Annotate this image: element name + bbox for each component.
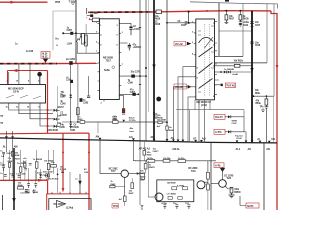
node circled mark in U3 xyxy=(112,66,115,69)
tube U4 internal lever 2 xyxy=(199,79,213,89)
node junction y96 xyxy=(266,95,268,97)
wire vertical x219 xyxy=(218,3,220,57)
resistor R243 xyxy=(20,167,22,172)
node connector AS xyxy=(166,139,169,141)
svg-text:BA157: BA157 xyxy=(57,106,64,109)
node junction on rail xyxy=(188,11,190,13)
wire red vertical x48 xyxy=(47,71,49,134)
node junction x154 xyxy=(153,112,155,114)
wire x148.5 to Q2 base xyxy=(148,161,150,197)
svg-text:1: 1 xyxy=(122,32,124,34)
wire to N-070 xyxy=(240,196,246,206)
svg-text:V2 1.32: V2 1.32 xyxy=(175,43,183,46)
wire U1 pin8 up xyxy=(29,64,31,83)
svg-text:1u: 1u xyxy=(75,178,78,180)
resistor R0636 tall xyxy=(35,162,38,168)
node arrow left on red branch xyxy=(12,69,18,72)
svg-text:9: 9 xyxy=(117,35,119,37)
diode D2 xyxy=(19,105,53,114)
svg-text:R0500: R0500 xyxy=(234,192,241,194)
wire vertical x36.7 xyxy=(36,150,38,180)
svg-text:+C261: +C261 xyxy=(133,47,140,49)
resistor R645m on x167 xyxy=(166,126,168,130)
svg-text:C2u: C2u xyxy=(57,123,62,125)
svg-text:L294: L294 xyxy=(67,42,73,45)
node arrow red x63 xyxy=(62,188,65,193)
svg-text:AP: AP xyxy=(150,135,154,139)
wire rail mid-left dashed xyxy=(0,63,57,65)
resistor R482 below xyxy=(207,182,209,184)
ground below R617 xyxy=(224,20,228,24)
svg-text:R0478: R0478 xyxy=(149,166,156,169)
pin stubs U3 left xyxy=(98,23,100,90)
svg-text:C0477: C0477 xyxy=(153,150,160,153)
box input section top-left xyxy=(53,11,76,50)
node junction tube pin1 xyxy=(188,22,190,24)
resistor R295 vertical tall xyxy=(85,35,88,46)
svg-text:AI: AI xyxy=(257,137,260,141)
svg-text:7: 7 xyxy=(122,64,124,66)
collector Q3 wire xyxy=(204,179,208,182)
resistor thermistor red below U3 xyxy=(123,96,125,109)
capacitor C041 under AL xyxy=(2,152,5,157)
node junction R295 xyxy=(84,42,86,44)
svg-text:R62s: R62s xyxy=(238,60,244,62)
capacitor C245 xyxy=(24,168,27,170)
svg-text:16: 16 xyxy=(213,23,216,25)
label red box Cha TV xyxy=(214,114,225,119)
wire horizontal y122 extension xyxy=(81,121,167,123)
tube U4 box MC1310 xyxy=(196,19,215,100)
node junction diodes xyxy=(220,71,222,73)
diode D4 xyxy=(40,105,53,126)
wire vertical x274 xyxy=(273,4,275,96)
svg-text:4: 4 xyxy=(100,34,102,37)
cap PC038 xyxy=(44,173,46,175)
resistor R649 xyxy=(123,196,126,201)
svg-text:8: 8 xyxy=(117,44,119,46)
svg-text:ITM: ITM xyxy=(55,0,60,4)
resistor R047m series on y122 xyxy=(158,121,162,124)
resistor R632 xyxy=(265,96,267,99)
svg-text:SvBu: SvBu xyxy=(104,69,110,72)
tube U4 internal tick marks xyxy=(198,26,214,92)
svg-text:Notch: Notch xyxy=(129,117,135,120)
svg-text:AL30: AL30 xyxy=(42,53,48,56)
diode D3 xyxy=(30,105,53,119)
wire U4 bottom pins to bus xyxy=(199,100,205,142)
capacitor C04u bottom-left xyxy=(25,190,28,192)
svg-text:PC 1358 P: PC 1358 P xyxy=(54,202,66,206)
relay box near U3 pin1 xyxy=(92,18,99,22)
wire x266.4 to bus xyxy=(265,108,267,143)
diode D31 xyxy=(39,174,42,177)
wire vertical x267 xyxy=(266,4,268,63)
svg-text:C287: C287 xyxy=(67,29,73,32)
diode D22 xyxy=(69,124,72,127)
node junction x167 y122 xyxy=(166,121,168,123)
wire AN down to Q1 xyxy=(99,140,101,173)
svg-text:(1.24u): (1.24u) xyxy=(66,207,73,210)
tube U4 internal dotted lines xyxy=(204,24,206,96)
wire rail into U3 pin xyxy=(96,62,98,64)
node connector AN right xyxy=(268,141,271,143)
capacitor C267 on U3 pin wire xyxy=(121,93,138,95)
node mark top-right corner xyxy=(225,0,229,2)
svg-text:R0636: R0636 xyxy=(36,159,43,161)
node connector AP xyxy=(153,139,156,141)
svg-text:1u 1N4148: 1u 1N4148 xyxy=(224,68,235,71)
svg-text:R647: R647 xyxy=(129,192,135,195)
node junction mid rail xyxy=(44,63,46,65)
svg-text:1k R0s: 1k R0s xyxy=(147,158,154,160)
node junction x76 y33 xyxy=(75,32,77,34)
diode D1 right of U1 xyxy=(9,105,53,110)
node connector AL xyxy=(5,131,7,152)
wire vertical x20.7 xyxy=(20,150,22,180)
wire C287 to U3 pin5 xyxy=(76,32,98,34)
op-amp U2 triangle xyxy=(57,200,66,207)
label red TP10 xyxy=(112,204,118,208)
node junction C270 wire xyxy=(139,75,141,77)
IC U1 internal levers xyxy=(6,95,41,99)
node S1 circle xyxy=(156,97,161,102)
wire thick vertical x252 xyxy=(251,11,253,143)
diode D21 xyxy=(69,95,72,98)
svg-text:14: 14 xyxy=(213,43,216,46)
svg-text:TPs: TPs xyxy=(260,107,265,109)
capacitor C263 xyxy=(87,96,90,98)
svg-text:6: 6 xyxy=(197,78,199,80)
svg-text:AM AL: AM AL xyxy=(172,147,180,151)
node connector AT xyxy=(194,140,197,142)
wire x140 lower xyxy=(139,141,141,205)
emitter wire Q1 down xyxy=(124,177,126,196)
diode D14 xyxy=(225,131,228,133)
resistor R243b series xyxy=(80,121,85,124)
svg-text:8: 8 xyxy=(100,44,102,46)
capacitor C619 xyxy=(239,20,242,26)
capacitor C645 xyxy=(34,184,37,188)
node arrow on x252 xyxy=(250,68,253,73)
svg-text:C263: C263 xyxy=(83,103,89,105)
resistor R473 xyxy=(178,160,186,163)
resistor R618 xyxy=(239,11,241,15)
label red box A TFC xyxy=(214,129,225,134)
svg-text:Trig Out: Trig Out xyxy=(235,135,243,138)
capacitor C279 right of U3 xyxy=(121,23,131,26)
svg-text:AL: AL xyxy=(3,145,7,149)
svg-text:R617: R617 xyxy=(229,18,235,20)
svg-text:Ku: Ku xyxy=(56,37,60,40)
caps row y175 xyxy=(4,175,7,177)
wire vertical x140 xyxy=(139,0,141,141)
svg-text:u: u xyxy=(57,44,59,47)
resistor R481 top right xyxy=(207,172,210,179)
pin stubs U4 right xyxy=(215,22,220,95)
svg-text:TV IF AG: TV IF AG xyxy=(226,84,235,87)
node arrow on right red rail xyxy=(276,65,279,70)
node junction red x48 xyxy=(47,118,49,120)
svg-text:10k R580: 10k R580 xyxy=(167,183,177,185)
wire rail +V dashed segment xyxy=(88,11,152,13)
wire U4 pin7 to bus xyxy=(173,87,193,142)
wire vertical x77.9 below rail xyxy=(77,64,79,122)
wire rail +V solid red to right edge xyxy=(152,11,271,12)
svg-text:Tr20: Tr20 xyxy=(227,177,232,180)
capacitor C287 xyxy=(63,32,76,34)
svg-text:C616: C616 xyxy=(255,45,261,47)
svg-text:(1.5V): (1.5V) xyxy=(201,104,207,107)
node junction x146 xyxy=(145,67,147,69)
wire to U3 pin7 xyxy=(77,52,99,54)
resistor R647 xyxy=(131,183,134,189)
wire U1 pin3 up xyxy=(39,72,41,82)
node junction red x63 xyxy=(62,152,64,154)
svg-text:N-070: N-070 xyxy=(247,205,254,208)
wire vertical x35.8 xyxy=(35,170,37,184)
node connector AI xyxy=(259,141,262,143)
wire horizontal y109.7 under U4 xyxy=(176,110,244,117)
node connector ALJ xyxy=(236,140,239,142)
wire vertical x189.3 xyxy=(188,110,190,142)
node junction red y180 xyxy=(5,180,7,182)
svg-text:1u: 1u xyxy=(15,44,18,46)
wire U1 pin4 up xyxy=(8,72,10,82)
capacitor C047 xyxy=(2,166,5,171)
node connector x252 end xyxy=(251,141,254,143)
svg-text:1/2 W: 1/2 W xyxy=(13,91,20,94)
diode notch junction xyxy=(122,120,125,122)
box sub-circuit bottom-middle xyxy=(157,180,194,202)
wire vertical x9.5 xyxy=(9,150,11,180)
svg-text:R63u: R63u xyxy=(256,103,262,105)
tube U4 internal arc 2 xyxy=(199,47,213,57)
svg-text:4n: 4n xyxy=(60,100,63,103)
wire vertical x148.5 xyxy=(148,0,150,112)
wire red feed top-left xyxy=(0,1,48,3)
wire red horizontal y133 xyxy=(0,132,89,135)
caps bottom row middle xyxy=(163,205,166,209)
op-amp U3 IC box xyxy=(100,19,120,100)
node junction y122 xyxy=(70,121,72,123)
svg-text:R476: R476 xyxy=(140,172,146,175)
wire U4 pin6 to bus xyxy=(178,77,194,142)
pad and label red TV IF xyxy=(215,84,221,86)
svg-text:C0-05: C0-05 xyxy=(236,138,242,140)
svg-text:11: 11 xyxy=(141,209,144,210)
wire vertical x40.6 diode leg xyxy=(40,169,42,180)
svg-text:7217: 7217 xyxy=(106,58,112,62)
pin stubs U3 right xyxy=(119,23,121,94)
wire loop y62.9 xyxy=(215,62,268,64)
resistor R644m on thick line xyxy=(155,114,157,118)
svg-text:13: 13 xyxy=(16,106,19,108)
svg-text:C617: C617 xyxy=(255,25,261,27)
svg-text:AN: AN xyxy=(96,134,100,138)
svg-text:C262: C262 xyxy=(70,58,76,61)
svg-text:C267: C267 xyxy=(130,92,136,94)
wire vertical x3.6 xyxy=(3,157,5,180)
capacitor C646 xyxy=(27,184,30,188)
transistor Q5 dot near U1 xyxy=(37,72,42,77)
svg-text:1k R0s: 1k R0s xyxy=(178,158,185,160)
node junction on rail xyxy=(206,10,208,12)
resistor R478 xyxy=(144,164,147,169)
svg-text:15: 15 xyxy=(16,81,19,83)
svg-text:49u: 49u xyxy=(130,127,134,130)
tube U4 internal diagonal 3 xyxy=(205,37,214,48)
svg-text:10u: 10u xyxy=(51,162,55,164)
svg-text:TP: TP xyxy=(0,123,3,125)
wire horizontal y31 top right xyxy=(219,30,252,32)
svg-text:hum: hum xyxy=(130,131,134,133)
svg-text:R037: R037 xyxy=(15,159,21,161)
resistor R249 series xyxy=(113,121,119,124)
wire x244 to bus xyxy=(244,117,246,141)
wire rail to tube pin1 xyxy=(189,12,196,23)
wire net bottom-left verticals xyxy=(58,168,70,193)
node junction red x89 xyxy=(88,152,90,154)
wire vertical x70.7 below rail xyxy=(70,64,72,122)
connector plug below AL30 xyxy=(43,59,48,63)
node input arrow into U4 pin3 xyxy=(187,42,192,46)
node junction y96 xyxy=(253,95,255,97)
label red box A-TN xyxy=(214,163,224,168)
svg-text:1: 1 xyxy=(100,25,102,27)
node arrow on x154 xyxy=(152,65,155,70)
wire U1 pin15 up xyxy=(18,64,20,83)
svg-text:Cha TV: Cha TV xyxy=(215,116,223,119)
node junction on rail xyxy=(239,10,241,12)
wire vertical x243 xyxy=(242,4,244,57)
wire L294 down leg xyxy=(76,42,78,53)
node connector group mid xyxy=(172,139,175,141)
capacitor C270 on U3 pin wire xyxy=(121,75,146,77)
svg-text:C248: C248 xyxy=(60,102,66,105)
tick marks on x140 xyxy=(139,27,141,84)
label red box AL30 xyxy=(41,52,50,59)
svg-text:5: 5 xyxy=(197,68,199,70)
resistor R471 xyxy=(147,160,155,163)
node connector AK xyxy=(245,141,248,143)
svg-text:C047: C047 xyxy=(0,164,6,167)
svg-text:R616: R616 xyxy=(155,18,161,20)
svg-text:C0M: C0M xyxy=(61,94,66,97)
node junction red x48 xyxy=(47,125,49,127)
node connector AO xyxy=(132,138,135,140)
ground at T18V xyxy=(71,3,75,4)
wire horizontal y96 right xyxy=(252,95,274,97)
capacitor C617 on x252 xyxy=(250,22,254,28)
wire loop y56.4 xyxy=(215,55,244,57)
svg-text:4u7: 4u7 xyxy=(157,125,161,128)
wire vertical x264 bottom-right xyxy=(263,143,265,210)
transistor Q2 in sub-box xyxy=(155,193,163,201)
svg-text:AQ: AQ xyxy=(202,137,206,141)
svg-text:2: 2 xyxy=(117,25,119,27)
bus main horizontal xyxy=(0,138,277,143)
svg-text:C248: C248 xyxy=(21,173,27,176)
svg-text:1u: 1u xyxy=(0,173,3,175)
svg-text:A-TN: A-TN xyxy=(215,164,221,167)
svg-text:C206: C206 xyxy=(60,127,66,129)
svg-text:47u: 47u xyxy=(133,44,137,47)
svg-text:C627: C627 xyxy=(181,25,187,27)
tube U4 internal lever 1 xyxy=(199,63,213,74)
wire vertical x53.5 xyxy=(53,150,55,174)
node connector AQ xyxy=(200,140,203,142)
svg-text:TP: TP xyxy=(0,116,3,118)
svg-text:4: 4 xyxy=(7,80,9,83)
svg-text:C266: C266 xyxy=(128,83,134,85)
svg-text:C1378: C1378 xyxy=(60,115,67,117)
capacitor C043 xyxy=(29,163,32,165)
svg-text:R61B: R61B xyxy=(243,18,249,20)
svg-text:R645: R645 xyxy=(169,129,175,132)
pin stubs U1 top xyxy=(9,82,40,84)
node junction red x48 xyxy=(47,109,49,111)
svg-text:C0M: C0M xyxy=(70,129,75,132)
diode D11 diode D12 series xyxy=(215,71,224,73)
node junction y122 xyxy=(77,121,79,123)
svg-text:C619: C619 xyxy=(243,25,249,27)
svg-text:AS: AS xyxy=(171,136,175,140)
svg-text:+2u40: +2u40 xyxy=(232,73,239,76)
wire red vertical x89 xyxy=(88,133,90,210)
svg-text:2: 2 xyxy=(192,31,194,33)
resistor R472 xyxy=(163,160,170,163)
resistor R203 vertical xyxy=(77,108,80,115)
svg-text:47u: 47u xyxy=(130,88,134,91)
wire rail mid-left red continuation xyxy=(57,62,96,64)
resistor R042b under bus xyxy=(143,151,146,156)
transistor Q1 BC238C xyxy=(121,170,128,177)
svg-text:R042: R042 xyxy=(147,154,153,157)
pin stubs U4 bottom xyxy=(195,100,210,110)
svg-text:3: 3 xyxy=(192,42,194,44)
wire red vertical x63 xyxy=(62,133,64,189)
wire vertical x211 bottom-right xyxy=(210,142,212,210)
wire x98 down from y122 xyxy=(97,122,99,133)
wire vertical x48.5 xyxy=(48,150,50,180)
svg-text:14: 14 xyxy=(27,105,30,108)
inductor L294 xyxy=(77,34,82,42)
svg-text:10u: 10u xyxy=(94,13,98,15)
wire top-right gray frame xyxy=(190,2,277,9)
wire vertical x28.6 xyxy=(28,168,30,184)
tube U4 internal arc top xyxy=(199,37,214,43)
svg-text:V3 1.30: V3 1.30 xyxy=(175,86,183,89)
wire vertical x12.6 xyxy=(12,156,14,175)
capacitor C252 blob xyxy=(80,98,83,102)
svg-text:100n C640: 100n C640 xyxy=(43,171,54,174)
svg-text:4u C28: 4u C28 xyxy=(26,50,34,53)
node arrow below A-TN xyxy=(220,168,225,172)
svg-text:+100u: +100u xyxy=(161,203,168,205)
svg-text:CC1Pb: CC1Pb xyxy=(129,120,136,122)
pin stubs U1 bottom xyxy=(9,103,40,105)
svg-text:1.7n R056: 1.7n R056 xyxy=(166,194,176,196)
ground below R632 xyxy=(264,105,268,108)
svg-text:C041: C041 xyxy=(6,152,12,155)
node connector AN xyxy=(99,138,102,141)
wire red box left edge xyxy=(7,71,9,85)
resistor R636 tall xyxy=(47,163,50,169)
box op-amp U2 bottom-left xyxy=(49,199,91,210)
pin stubs U4 left xyxy=(194,23,196,97)
transistor D arrow xyxy=(79,174,81,193)
